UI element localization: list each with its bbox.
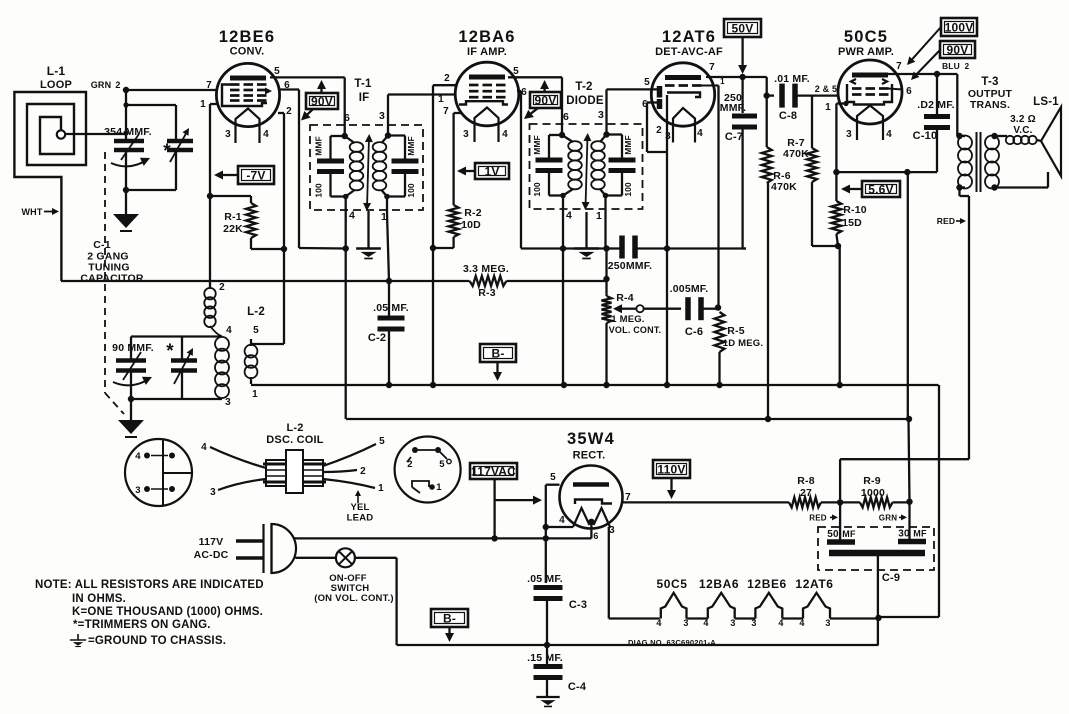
voltage box 117VAC (470, 463, 517, 479)
wire L-2 pin1 to B- bus (250, 377, 252, 384)
wire T-2 pin1 down to volume control (604, 196, 606, 249)
wire V1 plate to T-1 pin6 (270, 76, 345, 78)
wire R-9 right (893, 501, 910, 503)
svg-text:R-8: R-8 (797, 475, 815, 487)
svg-text:CONV.: CONV. (230, 46, 265, 58)
svg-text:V.C.: V.C. (1013, 125, 1032, 136)
svg-text:1: 1 (720, 77, 725, 86)
node T-3 secondary top (991, 133, 997, 139)
node C-8 left / R-6 top (764, 92, 770, 98)
wire AVC bus right (506, 280, 606, 282)
svg-text:3.2 Ω: 3.2 Ω (1010, 114, 1036, 125)
svg-text:2: 2 (444, 73, 450, 84)
svg-text:C-9: C-9 (882, 572, 900, 584)
wire 354MMF top branch to trimmer (126, 104, 176, 106)
node C-2 top on AVC bus (386, 278, 392, 284)
svg-text:C-7: C-7 (725, 131, 743, 143)
node T-2 pin6 top left (559, 132, 565, 138)
wire speaker top lead (995, 135, 1008, 137)
resistor R-8 27 (789, 497, 821, 507)
svg-text:3: 3 (598, 109, 604, 121)
svg-text:MMF: MMF (532, 135, 542, 154)
svg-text:90V: 90V (947, 43, 969, 57)
T-2 windings (568, 141, 582, 151)
wire B- bus (251, 384, 939, 386)
svg-text:354 MMF.: 354 MMF. (104, 126, 152, 138)
svg-text:35W4: 35W4 (567, 430, 615, 448)
node B- R-5 (716, 382, 722, 388)
arrow 90V to V2 screen (531, 108, 538, 113)
wire speaker bottom lead (995, 186, 1049, 188)
speaker LS-1 cone (1041, 107, 1061, 176)
svg-text:50V: 50V (732, 21, 754, 35)
svg-text:5: 5 (644, 77, 650, 88)
svg-text:.005MF.: .005MF. (670, 283, 709, 295)
svg-text:22K: 22K (223, 223, 243, 235)
resistor R-4 1MEG volume control (602, 296, 612, 323)
arrow 90V to plate wire (917, 50, 940, 74)
svg-text:4: 4 (226, 325, 232, 336)
svg-text:*=TRIMMERS ON GANG.: *=TRIMMERS ON GANG. (73, 619, 211, 631)
svg-text:100: 100 (532, 182, 542, 196)
svg-text:2: 2 (965, 62, 970, 71)
svg-text:YEL: YEL (350, 502, 369, 513)
svg-text:3: 3 (135, 485, 140, 496)
wire plug bottom lead (296, 557, 337, 559)
wire R-8 to R-9 (821, 501, 860, 503)
transformer T-2 dashed box (530, 124, 643, 209)
node T-2 pin1 / C-5 left (603, 245, 609, 251)
voltage box 90V (V1 plate) (306, 93, 338, 109)
tube socket drawing (osc coil socket) (125, 439, 192, 506)
resistor R-9 1000 (860, 497, 893, 507)
tube V5 35W4 rectifier (560, 466, 623, 529)
capacitor C-2 .05MF (378, 316, 405, 321)
resistor R-1 22K (250, 196, 252, 203)
svg-text:6: 6 (906, 86, 912, 97)
svg-text:5: 5 (253, 325, 259, 336)
wire diode 2 lead (647, 101, 657, 103)
svg-text:1: 1 (252, 389, 258, 400)
svg-text:C-4: C-4 (568, 681, 587, 693)
svg-text:4: 4 (559, 515, 565, 526)
svg-text:R-5: R-5 (727, 325, 745, 337)
node 90mmf bottom (128, 396, 134, 402)
inductor L-2 winding a (204, 288, 215, 299)
node R-1 top (207, 193, 213, 199)
svg-text:100V: 100V (945, 20, 974, 34)
svg-text:12BA6: 12BA6 (699, 577, 739, 591)
wire B- return right (879, 616, 940, 618)
voltage box 100V (941, 18, 977, 36)
wire heater link 2 (735, 617, 756, 619)
node T-2 bottom right (603, 193, 609, 199)
svg-text:90 MMF.: 90 MMF. (112, 342, 154, 354)
svg-text:4: 4 (656, 618, 661, 628)
svg-text:3: 3 (825, 618, 830, 628)
svg-text:4: 4 (886, 129, 892, 140)
wire T-1 pin1 down (386, 197, 388, 214)
svg-text:RED: RED (809, 514, 827, 523)
wire C-2 stem bottom (388, 329, 390, 385)
wire 12BE6 pin1 to L-2 pin2 (209, 104, 211, 289)
transformer T-3 secondary (985, 136, 999, 150)
node V3 plate / C-7 (739, 74, 745, 80)
note ground symbol (77, 634, 79, 640)
svg-text:BLU: BLU (942, 61, 960, 71)
svg-text:R-3: R-3 (478, 287, 496, 299)
node B- T-2 pin4 (561, 382, 567, 388)
wire R-4 bottom to B- bus (605, 323, 607, 385)
wire L-2 pin5 to cathode line (250, 339, 252, 345)
wire R-1 bottom (250, 238, 252, 249)
svg-text:R-4: R-4 (616, 292, 634, 304)
svg-text:100: 100 (623, 182, 633, 196)
svg-text:2: 2 (656, 125, 662, 136)
electrolytic C-9 dashed box (818, 527, 934, 570)
wire V2 plate to T-2 pin6 (508, 76, 562, 78)
ground below tuning cap (113, 214, 139, 228)
ground at T-1 slug (356, 247, 381, 249)
node B- V2 line (430, 382, 436, 388)
svg-text:IN OHMS.: IN OHMS. (72, 593, 126, 605)
svg-text:R-10: R-10 (843, 204, 867, 216)
svg-text:15D: 15D (842, 217, 862, 229)
svg-text:C-8: C-8 (779, 110, 797, 122)
svg-text:7: 7 (206, 80, 212, 91)
wire C-10 return (907, 171, 937, 173)
svg-text:4: 4 (697, 128, 703, 139)
svg-text:4: 4 (799, 618, 804, 628)
wire C-4 stem (546, 645, 548, 666)
resistor R-10 15D (835, 172, 837, 201)
capacitor C-1b 90MMF variable (116, 358, 146, 363)
arrow 50V down to plate wire (741, 37, 743, 65)
wire 90mmf cap drop (130, 337, 132, 360)
ground below osc section (118, 420, 144, 434)
node filter out (906, 499, 912, 505)
svg-text:90V: 90V (311, 94, 333, 108)
node C-5 right / diode return (664, 245, 670, 251)
wire trimmer1 drop (175, 105, 177, 139)
capacitor C-9 30MF section (898, 539, 926, 545)
wire RED primary lead (958, 188, 960, 197)
wire T-1 pin4 down to B+ bus (345, 197, 347, 420)
node T-1 pin6 top left (342, 133, 348, 139)
node 354 top branch (123, 102, 128, 107)
resistor R-2 10D (449, 205, 459, 237)
svg-text:5: 5 (439, 459, 445, 470)
label YEL LEAD (357, 496, 359, 503)
node 354 bottom junction (123, 187, 129, 193)
svg-text:C-2: C-2 (368, 332, 386, 344)
voltage box 1V (475, 163, 509, 179)
wire to ground (125, 190, 127, 214)
wire 50MF lead (839, 502, 841, 542)
svg-text:T-2: T-2 (575, 81, 592, 93)
ground at T-2 return (574, 247, 599, 249)
node T-1 bottom right (384, 194, 390, 200)
svg-text:1: 1 (825, 102, 831, 113)
arrow 90V to screen (307, 109, 313, 114)
svg-text:3: 3 (463, 129, 469, 140)
svg-text:LOOP: LOOP (40, 79, 72, 91)
svg-text:L-1: L-1 (47, 64, 66, 78)
svg-text:4: 4 (349, 210, 355, 222)
svg-text:(ON VOL. CONT.): (ON VOL. CONT.) (314, 593, 394, 604)
node V5 pin4 join (543, 524, 549, 530)
wire R-5 bottom to B- bus (718, 352, 720, 385)
wire C-4 bottom (546, 678, 548, 698)
T-1 right tuning capacitor (388, 134, 405, 136)
resistor R-3 3.3MEG (470, 276, 507, 286)
svg-text:MMF: MMF (406, 136, 416, 155)
svg-text:R-2: R-2 (464, 207, 482, 219)
wire pin5 line down (545, 527, 547, 583)
transformer T-3 primary (958, 136, 972, 150)
svg-text:2: 2 (115, 80, 120, 90)
node T-2 bottom left (560, 193, 566, 199)
svg-text:WHT: WHT (21, 207, 42, 217)
resistor R-5 10MEG (715, 312, 725, 352)
svg-text:IF: IF (359, 92, 370, 104)
node C-3 bottom bus (544, 642, 550, 648)
svg-text:CAPACITOR: CAPACITOR (80, 273, 143, 285)
svg-text:12BA6: 12BA6 (458, 28, 515, 46)
capacitor C-10 .02MF (924, 114, 950, 119)
svg-text:10D: 10D (461, 219, 481, 231)
node T-3 primary bottom (956, 184, 962, 190)
svg-text:470K: 470K (771, 181, 797, 193)
svg-text:3: 3 (225, 397, 231, 408)
wire V5 pin5 (546, 484, 560, 486)
svg-text:IF AMP.: IF AMP. (467, 46, 507, 58)
svg-text:K=ONE THOUSAND (1000) OHMS.: K=ONE THOUSAND (1000) OHMS. (72, 606, 263, 618)
node B- R-4 (603, 382, 609, 388)
svg-text:100: 100 (406, 183, 416, 197)
svg-text:RED: RED (937, 216, 956, 226)
svg-text:110V: 110V (657, 462, 685, 476)
heater 50C5 (661, 593, 687, 619)
T-2 right tuning capacitor (607, 133, 623, 135)
node B+ bus R-6 (765, 416, 771, 422)
svg-text:27: 27 (800, 487, 812, 499)
voltage box 90V (V2 plate) (530, 92, 561, 108)
tube V4 50C5 pwr amp (838, 60, 902, 124)
heater 12BA6 (708, 593, 735, 619)
svg-text:T-3: T-3 (981, 76, 998, 88)
wire R-7 bottom (811, 182, 813, 246)
svg-text:7: 7 (896, 61, 902, 72)
capacitor C-9 50MF section (827, 539, 855, 545)
node T-1 pin3 top right (385, 132, 391, 138)
svg-text:4: 4 (703, 618, 708, 628)
svg-text:7: 7 (709, 62, 715, 73)
node V2 pin2 R-2 join (430, 245, 436, 251)
wire T-3 pri top (960, 135, 966, 137)
svg-text:5: 5 (379, 436, 385, 447)
svg-text:3: 3 (846, 129, 852, 140)
transformer T-1 dashed box (310, 125, 423, 210)
svg-text:1: 1 (436, 482, 442, 493)
node GRN junction (123, 87, 129, 93)
T-1 left tuning capacitor (331, 135, 345, 137)
node V4 cathode junction (833, 169, 839, 175)
arrow 90V up to V2 plate wire (543, 89, 545, 92)
svg-text:3: 3 (751, 618, 756, 628)
node C-10 top (934, 71, 940, 77)
inductor L-1 loop antenna (14, 92, 86, 281)
voltage box 110V (653, 460, 690, 478)
wire V1 cathode pin2 (278, 112, 284, 114)
inductor L-2 winding c (feedback) (245, 345, 258, 358)
node heater tap (588, 519, 594, 525)
svg-text:3: 3 (609, 525, 615, 536)
arrow 110V down to B+ line (670, 478, 672, 490)
wire C-3 bottom (546, 599, 548, 646)
wire R-2 bottom (452, 237, 454, 248)
wire T-3 pri bottom (960, 186, 966, 188)
svg-text:100: 100 (314, 183, 324, 197)
wire T-2 ground stub (585, 212, 587, 249)
wire cathode to C-10 return (836, 171, 907, 173)
wire R-1 top to grid line (210, 195, 251, 197)
svg-text:NOTE: ALL RESISTORS ARE INDICA: NOTE: ALL RESISTORS ARE INDICATED (35, 579, 264, 591)
svg-text:DIODE: DIODE (566, 95, 604, 107)
svg-text:MF: MF (842, 529, 856, 539)
svg-text:1000: 1000 (861, 487, 885, 499)
node B+ bus right end (906, 416, 912, 422)
node R-1 bottom / V1 cathode (281, 246, 287, 252)
wire GRN node to 12BE6 pin7 (126, 89, 217, 91)
wire T-1 slug ground stem (367, 211, 369, 249)
wire heater pin4 (546, 526, 573, 528)
wire 354 bottom (125, 150, 127, 190)
wire 90mmf top rail (131, 335, 222, 337)
wire osc ground stem (130, 399, 132, 420)
arrow B- bottom (448, 627, 450, 633)
wire V3 plate pin7 (706, 76, 767, 78)
svg-text:AC-DC: AC-DC (194, 549, 229, 561)
capacitor C-4 .15MF (534, 664, 563, 669)
capacitor C-6 .005MF (685, 297, 691, 320)
voltage box B- (avc) (480, 344, 516, 362)
wire C-9 common down (877, 556, 879, 645)
svg-text:VOL. CONT.: VOL. CONT. (609, 325, 662, 335)
tube V3 12AT6 det-avc-af (651, 63, 714, 126)
capacitor C-3 .05MF (534, 585, 563, 590)
svg-text:LEAD: LEAD (347, 513, 374, 524)
wire AVC bus left (61, 280, 470, 282)
svg-text:4: 4 (502, 129, 508, 140)
arrow 100V to plate pin (912, 27, 941, 59)
svg-text:R-9: R-9 (863, 475, 881, 487)
arrow 1V to cathode (466, 170, 475, 172)
node 117VAC riser join (491, 535, 497, 541)
svg-text:2 & 5: 2 & 5 (815, 84, 838, 94)
svg-text:GRN: GRN (91, 80, 112, 90)
svg-text:1: 1 (596, 210, 602, 222)
wire V4 plate to BLU (888, 73, 957, 75)
wire heater string to C-9 node (830, 617, 879, 619)
svg-text:GRN: GRN (879, 514, 897, 523)
wire V2 cathode pin7 (454, 112, 462, 114)
node B- C-2 (386, 382, 392, 388)
svg-text:30: 30 (898, 529, 910, 540)
voltage box 50V (724, 19, 761, 37)
svg-text:1 MEG.: 1 MEG. (611, 314, 644, 325)
node T-3 primary top (956, 133, 962, 139)
svg-text:3: 3 (210, 487, 216, 498)
svg-text:50C5: 50C5 (656, 577, 687, 591)
svg-text:.05 MF.: .05 MF. (373, 302, 409, 314)
wire T-1 pin3 to V2 grid (387, 95, 389, 136)
wire C-7 bottom to det line (741, 127, 743, 249)
T-1 tuning arrow (367, 137, 369, 208)
wire C-10 stem (936, 74, 938, 114)
node loop tap (123, 130, 128, 135)
power plug body (262, 524, 264, 573)
ground below C-4 (536, 696, 559, 698)
capacitor C-9 common plate (829, 550, 925, 557)
wire V3 grid pin1 (716, 84, 719, 86)
wire V1 screen pin6 (280, 88, 299, 90)
on-off switch (336, 548, 355, 567)
svg-text:.01 MF.: .01 MF. (774, 73, 810, 85)
svg-text:C-1: C-1 (93, 239, 111, 251)
svg-text:6: 6 (593, 531, 598, 541)
node C-6 right / R-5 top (715, 304, 721, 310)
wire heater center tap (590, 522, 592, 538)
svg-text:4: 4 (201, 442, 207, 453)
capacitor C-8 .01MF (767, 94, 774, 96)
volume control wiper (622, 308, 636, 310)
svg-text:2: 2 (360, 466, 366, 477)
T-1 windings (350, 142, 364, 152)
wire join down to B- bus (839, 246, 841, 385)
heater 12AT6 (803, 593, 830, 619)
T-2 left tuning capacitor (549, 134, 562, 136)
svg-text:R-1: R-1 (224, 211, 242, 223)
svg-text:L-2: L-2 (286, 422, 303, 434)
svg-text:PWR AMP.: PWR AMP. (838, 46, 894, 58)
svg-text:3: 3 (379, 110, 385, 122)
arrow 5.6V to cathode (850, 188, 862, 190)
svg-text:.D2 MF.: .D2 MF. (917, 99, 955, 111)
wire loop center to tuning cap (65, 133, 126, 135)
svg-text:1: 1 (378, 483, 384, 494)
svg-text:MMF.: MMF. (720, 102, 746, 114)
wire V1 pin1 stub (210, 103, 218, 105)
svg-text:C-6: C-6 (685, 326, 703, 338)
svg-text:5: 5 (513, 66, 519, 77)
wire GRN node down to C-1a (125, 90, 127, 141)
wire B+ riser (907, 172, 909, 418)
svg-text:117V: 117V (199, 536, 224, 548)
wire V3 cathode down to B- bus (666, 95, 668, 385)
node T-1 bottom left (343, 194, 349, 200)
tube socket drawing (7 pin) (395, 437, 461, 503)
wire heater link 1 (687, 617, 708, 619)
wire T-2 pin3 to diode plate (605, 89, 607, 134)
wire R-6 bottom to B+ bus (767, 183, 769, 419)
arrow B- down to bus (496, 362, 498, 372)
svg-text:4: 4 (566, 210, 572, 222)
arrow -7V to osc grid (223, 174, 238, 176)
svg-text:1: 1 (200, 99, 206, 110)
node AVC takeoff (603, 276, 609, 282)
svg-text:7: 7 (443, 106, 449, 117)
